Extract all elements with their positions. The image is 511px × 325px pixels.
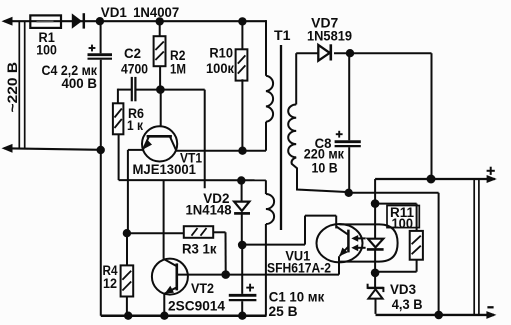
wire base drive loop y180 xyxy=(119,179,266,181)
node junction +out xyxy=(427,175,436,184)
wire VT2 base xyxy=(177,274,226,276)
wire top rail xyxy=(4,20,266,22)
wire emitter to R4 xyxy=(126,233,128,265)
connector plug line 1 xyxy=(18,21,20,148)
optocoupler VU1 body xyxy=(317,224,363,262)
node junction R11 top xyxy=(371,199,380,208)
capacitor C8 xyxy=(348,53,350,140)
node input arrow top xyxy=(2,17,13,26)
wire +output xyxy=(375,178,495,180)
label minus xyxy=(487,306,493,308)
wire R6 down to base loop xyxy=(118,134,120,180)
resistor R3 xyxy=(127,232,184,234)
svg-text:1N5819: 1N5819 xyxy=(307,28,352,43)
wire VD7 to corner xyxy=(334,52,432,54)
svg-text:10 В: 10 В xyxy=(312,161,338,176)
resistor R10 xyxy=(241,21,243,49)
wire feedback winding top lead xyxy=(265,180,267,194)
transistor VT1 xyxy=(142,126,177,161)
wire +out down to opto xyxy=(374,179,376,204)
wire lower input xyxy=(4,148,101,150)
node junction base/C2/R2 xyxy=(156,85,165,94)
node input arrow bottom xyxy=(2,144,13,153)
capacitor C1 xyxy=(241,245,243,294)
svg-text:VT2: VT2 xyxy=(191,281,214,296)
transistor VT2 xyxy=(152,259,188,295)
wire base node down with overshoot xyxy=(204,90,206,189)
svg-text:2SC9014: 2SC9014 xyxy=(168,299,225,314)
LED VU1 xyxy=(374,204,376,239)
svg-text:C2: C2 xyxy=(124,46,141,61)
diode VD2 xyxy=(241,181,243,202)
node junction C8 bottom xyxy=(345,189,353,197)
wire VT2 emitter xyxy=(163,294,165,316)
svg-text:R3 1к: R3 1к xyxy=(182,242,217,257)
svg-text:VD3: VD3 xyxy=(390,282,416,297)
svg-text:100к: 100к xyxy=(206,61,234,76)
wire minus bus to right xyxy=(349,192,439,194)
svg-text:220 мк: 220 мк xyxy=(304,146,344,161)
node junction VD2 anode xyxy=(237,176,245,184)
node junction VT2e rail xyxy=(160,312,168,320)
svg-text:1 к: 1 к xyxy=(127,118,143,133)
resistor R2 xyxy=(159,21,161,36)
connector output line 2 xyxy=(478,179,480,316)
capacitor C4 xyxy=(100,21,102,53)
svg-text:R10: R10 xyxy=(209,46,233,61)
node junction C1 rail xyxy=(238,312,246,320)
svg-text:~220 В: ~220 В xyxy=(5,62,20,113)
diode VD7 xyxy=(318,45,329,61)
svg-text:VD1: VD1 xyxy=(101,5,128,20)
wire C2 left to R6 xyxy=(117,89,119,104)
wire R11 top xyxy=(375,203,417,205)
wire VT1 collector xyxy=(176,150,266,152)
transformer T1 secondary winding xyxy=(288,105,296,158)
node junction R4 rail xyxy=(124,312,132,320)
resistor R6 xyxy=(113,103,124,134)
svg-text:T1: T1 xyxy=(274,27,291,43)
node junction R2 top xyxy=(156,17,164,25)
transformer T1 core xyxy=(280,45,282,230)
label + xyxy=(487,170,495,172)
node junction VD7/C8 xyxy=(346,49,354,57)
resistor R11 xyxy=(410,231,423,260)
svg-text:R2: R2 xyxy=(170,48,185,63)
node junction VD2/C1/opto xyxy=(238,241,247,250)
svg-text:1N4007: 1N4007 xyxy=(133,5,179,20)
wire secondary top lead xyxy=(295,53,297,104)
wire VT1 base lead xyxy=(160,90,162,127)
wire ground rail left xyxy=(101,314,267,317)
diode VD1 xyxy=(72,13,82,28)
svg-text:MJE13001: MJE13001 xyxy=(133,162,197,177)
node junction LED/R11 bottom xyxy=(371,269,380,278)
wire R10 to collector node xyxy=(241,79,243,151)
label box R11 xyxy=(387,206,419,228)
light arrow 1 xyxy=(357,237,366,239)
capacitor C2 xyxy=(131,77,133,101)
svg-text:100: 100 xyxy=(36,43,57,58)
svg-text:4700: 4700 xyxy=(121,62,148,77)
wire opto collector path xyxy=(242,244,305,246)
node junction R10 top xyxy=(238,17,246,25)
svg-text:1M: 1M xyxy=(170,62,186,77)
zener VD3 xyxy=(374,273,376,288)
svg-text:25 В: 25 В xyxy=(269,304,298,319)
node junction VD1/C4 xyxy=(96,17,104,25)
wire VT2 collector xyxy=(163,180,165,259)
node junction C4/input xyxy=(97,146,105,154)
svg-text:400 В: 400 В xyxy=(62,76,98,91)
resistor R4 xyxy=(121,265,134,296)
connector output line 1 xyxy=(473,179,475,316)
wire primary bottom lead xyxy=(265,122,267,151)
phototransistor VU1 base bar xyxy=(347,230,350,253)
resistor R1 xyxy=(30,15,61,28)
wire VT1 emitter xyxy=(128,149,143,151)
phototransistor collector xyxy=(336,227,348,235)
phototransistor emitter xyxy=(340,247,349,257)
wire C4 down to ground rail xyxy=(100,60,102,316)
svg-text:C1 10 мк: C1 10 мк xyxy=(269,290,325,305)
transformer T1 feedback winding xyxy=(266,194,274,224)
wire secondary bottom lead xyxy=(292,157,349,192)
light arrow 2 xyxy=(357,247,366,249)
wire opto emitter down xyxy=(338,256,340,274)
wire base to opto emitter xyxy=(226,274,339,276)
wire feedback winding bottom lead xyxy=(265,224,267,316)
node junction emitter/R3 xyxy=(123,229,131,237)
wire right corner down xyxy=(431,53,433,179)
node junction R10/collector xyxy=(238,147,246,155)
node junction VT2 base xyxy=(221,270,230,279)
transformer T1 primary winding xyxy=(266,76,273,122)
transformer T1 primary top lead xyxy=(265,20,267,76)
wire output minus rail xyxy=(376,314,495,316)
wire base node right xyxy=(160,89,204,91)
connector plug line 2 xyxy=(24,21,26,148)
svg-text:100: 100 xyxy=(392,216,414,231)
svg-text:1N4148: 1N4148 xyxy=(186,203,232,218)
svg-text:SFH617A-2: SFH617A-2 xyxy=(267,260,331,275)
node junction minus rail xyxy=(434,311,443,320)
svg-text:12: 12 xyxy=(103,276,117,291)
svg-text:4,3 В: 4,3 В xyxy=(392,297,423,312)
